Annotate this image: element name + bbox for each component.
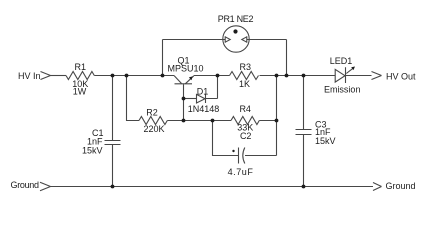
transistor Q1 emitter lead	[185, 76, 194, 84]
wire Q1 emitter to R3	[194, 75, 230, 77]
svg-text:Ground: Ground	[386, 181, 416, 191]
wire Q1 base down	[183, 84, 185, 120]
wire C2 right	[245, 155, 277, 157]
svg-text:R1: R1	[75, 62, 87, 72]
junction neon left	[161, 74, 165, 78]
junction C3 top	[302, 74, 306, 78]
junction D1 cathode	[216, 74, 220, 78]
svg-text:15kV: 15kV	[315, 136, 336, 146]
wire neon top right	[247, 39, 287, 41]
svg-text:1W: 1W	[73, 86, 87, 96]
node HV Out connector	[372, 72, 382, 80]
wire R4 to right branch	[259, 120, 276, 122]
wire C1 top branch	[112, 76, 114, 141]
junction C1 top	[111, 74, 115, 78]
resistor R3	[230, 72, 259, 80]
svg-text:1N4148: 1N4148	[188, 104, 220, 114]
svg-text:MPSU10: MPSU10	[167, 64, 203, 74]
wire ground rail	[51, 186, 374, 188]
junction R4 right	[275, 119, 279, 123]
junction right branch top	[275, 74, 279, 78]
capacitor C2 polarity dot	[232, 150, 234, 152]
junction neon right	[285, 74, 289, 78]
LED LED1	[335, 67, 345, 83]
svg-text:C2: C2	[240, 131, 252, 141]
wire neon top left	[163, 39, 226, 41]
svg-text:1K: 1K	[239, 79, 250, 89]
wire neon loop right vertical	[286, 40, 288, 76]
svg-text:PR1 NE2: PR1 NE2	[218, 14, 254, 24]
svg-text:15kV: 15kV	[82, 146, 103, 156]
wire R2 to base node	[167, 120, 231, 122]
node Ground left connector	[40, 182, 51, 191]
capacitor C1	[105, 141, 121, 145]
wire D1 anode	[184, 98, 197, 100]
wire right branch vertical	[276, 76, 278, 156]
transistor Q1 collector lead	[174, 76, 182, 84]
junction C3 ground	[302, 185, 306, 189]
svg-text:R2: R2	[146, 107, 158, 117]
svg-text:HV In: HV In	[18, 71, 41, 81]
svg-text:R3: R3	[240, 62, 252, 72]
wire R3 to LED1	[260, 75, 336, 77]
wire HV In to R1	[51, 75, 67, 77]
lamp PR1 circle	[223, 26, 249, 52]
lamp PR1 right electrode	[242, 36, 247, 42]
wire C3 bottom to ground	[303, 135, 305, 187]
resistor R1	[66, 72, 94, 80]
node HV In connector	[41, 72, 51, 80]
diode D1	[197, 94, 206, 103]
wire C1 bottom to ground	[112, 145, 114, 187]
resistor R4	[231, 117, 259, 125]
transistor Q1 emitter arrow	[189, 76, 193, 80]
capacitor C3	[296, 130, 312, 135]
svg-text:LED1: LED1	[330, 56, 353, 66]
transistor Q1 base bar	[175, 83, 193, 85]
svg-text:Emission: Emission	[324, 85, 361, 95]
svg-text:220K: 220K	[143, 124, 164, 134]
junction base row	[182, 119, 186, 123]
svg-text:HV Out: HV Out	[386, 72, 416, 82]
wire R1 to Q1 collector	[94, 75, 174, 77]
junction D1 anode	[182, 97, 186, 101]
junction R2 top	[125, 74, 129, 78]
svg-text:D1: D1	[197, 87, 209, 97]
svg-text:R4: R4	[239, 104, 251, 114]
lamp PR1 left electrode	[225, 36, 230, 42]
capacitor C2	[239, 148, 245, 164]
node Ground right connector	[373, 183, 382, 191]
svg-text:Ground: Ground	[11, 180, 40, 190]
wire C2 left riser	[213, 121, 239, 156]
LED LED1 emission arrow	[346, 68, 353, 74]
wire D1 cathode riser	[206, 76, 218, 99]
svg-text:4.7uF: 4.7uF	[228, 167, 254, 177]
junction C2 left	[211, 119, 215, 123]
junction C1 ground	[111, 185, 115, 189]
lamp PR1 gas dot	[233, 29, 237, 33]
wire neon loop left vertical	[162, 40, 164, 76]
wire LED1 to HV Out	[346, 75, 372, 77]
wire C3 top branch	[303, 76, 305, 130]
wire R2 drop from rail	[127, 76, 140, 121]
resistor R2	[139, 117, 167, 125]
